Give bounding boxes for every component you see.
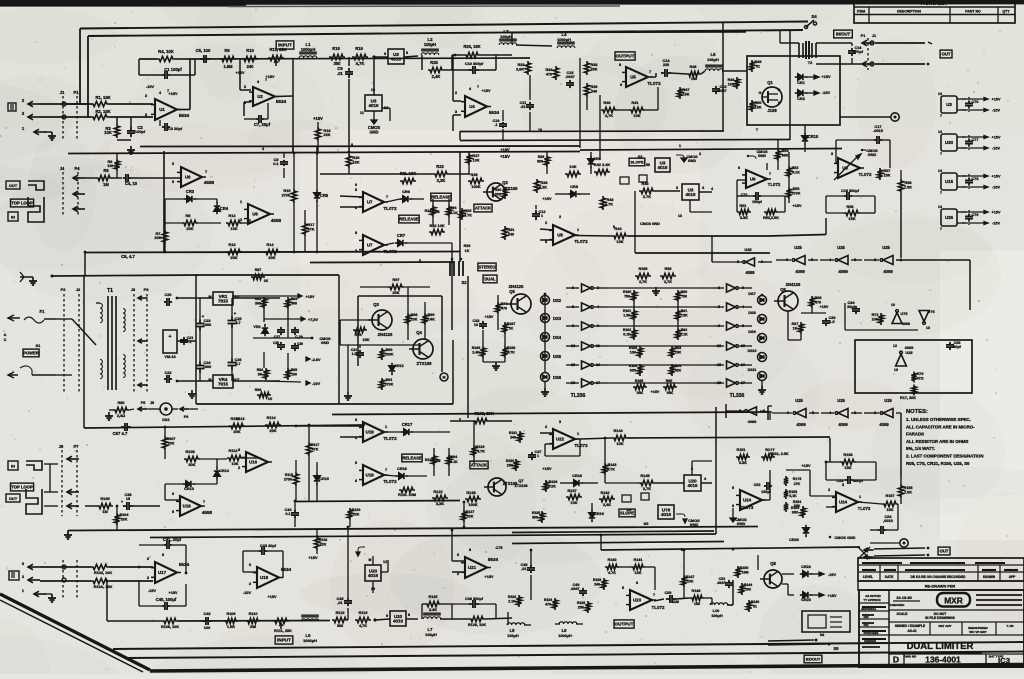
resistor R80 2.4K <box>113 407 129 412</box>
svg-text:R73: R73 <box>917 372 924 376</box>
wire chain to R71 <box>901 259 970 261</box>
svg-text:QTY: QTY <box>1002 10 1010 14</box>
resistor R15 270K <box>291 189 296 203</box>
svg-text:TL072: TL072 <box>858 506 871 511</box>
svg-text:Q6: Q6 <box>780 287 786 292</box>
svg-text:9: 9 <box>355 183 357 187</box>
wire left vertical A <box>79 29 81 105</box>
svg-text:7: 7 <box>940 114 942 118</box>
resistor R96 470 <box>495 302 500 314</box>
array cross wires <box>608 287 714 289</box>
sheet bottom edge <box>858 665 1024 668</box>
wire y456 link <box>459 418 461 421</box>
svg-text:+15V: +15V <box>306 295 315 299</box>
svg-text:.01: .01 <box>520 105 525 109</box>
capacitor C50 220 <box>666 598 670 600</box>
svg-text:100μH: 100μH <box>425 632 437 637</box>
resistor R45 2.7K <box>639 188 655 193</box>
ground R80 <box>108 412 110 416</box>
resistor R84 3K <box>263 368 268 380</box>
svg-text:U2: U2 <box>257 94 263 99</box>
resistor R85 100 <box>285 368 290 380</box>
resistor R52 2.5K <box>764 209 778 214</box>
svg-text:R67: R67 <box>792 322 799 326</box>
svg-text:7: 7 <box>940 152 942 156</box>
svg-text:8: 8 <box>408 613 410 617</box>
MXR logo <box>937 593 970 607</box>
resistor R20 22K <box>346 154 351 168</box>
slope boxes small <box>620 177 629 184</box>
svg-text:300: 300 <box>291 302 297 306</box>
wire chain1 left drop <box>711 236 713 253</box>
resistor R59 2.7K <box>660 273 676 278</box>
ground ladder <box>655 287 657 291</box>
svg-text:+15V: +15V <box>169 591 178 595</box>
svg-text:100K: 100K <box>468 502 477 507</box>
wire q3 bottom <box>339 320 341 345</box>
svg-text:100μH: 100μH <box>500 34 512 39</box>
resistor R129 4.7K <box>471 445 476 457</box>
svg-text:R130: R130 <box>506 459 514 463</box>
svg-text:20K: 20K <box>154 235 161 240</box>
svg-text:3: 3 <box>559 420 561 424</box>
label IN/OUT box <box>834 30 853 38</box>
wire chain2 bracket <box>767 406 769 420</box>
label RELEASE ch1b <box>399 215 419 223</box>
svg-text:C79: C79 <box>972 213 979 217</box>
wire L8 L9 stubs <box>507 612 509 625</box>
svg-text:CR19: CR19 <box>594 512 604 516</box>
svg-text:5: 5 <box>355 188 357 192</box>
svg-text:C10 300pf: C10 300pf <box>465 61 484 66</box>
svg-text:CR14: CR14 <box>219 469 230 473</box>
resistor R41b 10K <box>565 171 581 176</box>
inductor L1 1000uH <box>299 56 317 58</box>
capacitor C44 0.1 <box>294 510 296 513</box>
svg-text:R58: R58 <box>905 181 912 185</box>
svg-text:IN: IN <box>11 215 15 220</box>
label RELEASE ch1 <box>431 193 451 201</box>
svg-text:+15V: +15V <box>313 116 323 121</box>
svg-text:4016: 4016 <box>657 165 668 170</box>
svg-text:8: 8 <box>355 231 357 235</box>
resistor R87 1K top <box>251 274 265 279</box>
svg-text:4.7K: 4.7K <box>507 351 515 355</box>
svg-text:R14: R14 <box>266 242 274 247</box>
svg-text:C20: C20 <box>165 293 172 297</box>
svg-text:5: 5 <box>355 461 357 465</box>
wire S6 dots <box>768 640 814 641</box>
connector P2/J2 <box>63 294 65 392</box>
svg-text:R126, 10K: R126, 10K <box>468 623 486 627</box>
svg-text:R120: R120 <box>352 508 361 512</box>
svg-text:PART NO: PART NO <box>965 10 981 14</box>
svg-text:C1 100pf: C1 100pf <box>164 67 182 72</box>
label ATTACK ch1 <box>474 204 492 212</box>
resistor R127 10K <box>461 510 466 522</box>
svg-text:R12: R12 <box>228 213 236 218</box>
svg-text:U19: U19 <box>366 430 375 435</box>
svg-text:SIGNED / EXAMPLE: SIGNED / EXAMPLE <box>895 624 925 628</box>
resistor R10 240 <box>242 56 258 61</box>
svg-text:+15V: +15V <box>992 98 1001 102</box>
svg-text:+15V: +15V <box>801 463 811 468</box>
svg-text:240: 240 <box>250 625 256 629</box>
svg-text:10K: 10K <box>633 113 640 118</box>
label TOP LOOP <box>11 199 34 207</box>
svg-text:R142: R142 <box>600 491 609 495</box>
svg-text:P6: P6 <box>184 415 189 419</box>
op-amp U21 5534 <box>465 557 487 578</box>
resistor R118 300 <box>332 617 348 622</box>
resistor R17 47K <box>302 222 307 236</box>
svg-text:OUT: OUT <box>9 183 18 188</box>
svg-text:S6: S6 <box>833 646 839 651</box>
wire crossover X <box>56 318 72 320</box>
op-amp U9 TL072 var <box>838 158 860 178</box>
svg-text:R25: R25 <box>430 60 438 65</box>
jfet box <box>747 56 840 125</box>
resistor R42 2.4K <box>594 169 610 174</box>
resistor R36 6.2K <box>534 179 539 193</box>
svg-text:36K: 36K <box>792 511 799 515</box>
svg-text:R143: R143 <box>608 463 617 467</box>
svg-text:100μH: 100μH <box>507 634 519 638</box>
svg-text:OUT: OUT <box>940 548 949 553</box>
diode CR22 <box>800 573 803 575</box>
svg-text:-15V: -15V <box>312 382 320 386</box>
svg-text:,01: ,01 <box>337 601 342 605</box>
connector J3/P3 <box>133 294 135 392</box>
main title block outline <box>859 590 1024 666</box>
svg-text:2: 2 <box>545 221 547 225</box>
svg-text:CR1: CR1 <box>797 80 806 85</box>
svg-text:-2.6V: -2.6V <box>311 358 321 362</box>
diode CR6 <box>400 198 403 200</box>
svg-text:DS5: DS5 <box>553 354 562 359</box>
ic U3 4016 c <box>682 184 699 200</box>
svg-text:20K: 20K <box>392 290 399 295</box>
resistor R97 20K <box>388 284 404 289</box>
svg-text:R166: R166 <box>507 346 516 350</box>
resistor R138 25K <box>585 601 590 613</box>
capacitor C3 20pf <box>159 120 161 126</box>
resistor R19 4.7K <box>352 54 368 59</box>
svg-text:R150: R150 <box>740 566 749 570</box>
svg-text:2,6K: 2,6K <box>516 68 524 72</box>
resistor R66 470 <box>809 296 814 308</box>
svg-text:U25: U25 <box>795 398 803 403</box>
svg-text:300: 300 <box>537 160 543 164</box>
svg-text:4016: 4016 <box>368 573 379 578</box>
svg-text:6: 6 <box>636 581 638 585</box>
resistor R94 15K <box>353 327 367 332</box>
svg-text:ZTX108: ZTX108 <box>417 361 433 366</box>
svg-text:3: 3 <box>355 418 357 422</box>
svg-text:R80: R80 <box>118 401 125 405</box>
resistor R44 10K <box>612 233 628 238</box>
svg-text:R1, 10K: R1, 10K <box>95 95 110 100</box>
capacitor C33 1.5 <box>825 318 827 321</box>
svg-text:ITEM: ITEM <box>857 10 865 14</box>
resistor R1 10K <box>91 101 109 106</box>
resistor R159 2.7K <box>635 273 651 278</box>
oscillator block box <box>855 340 972 393</box>
jack J1 arrows <box>28 101 33 107</box>
svg-text:TL072: TL072 <box>574 239 588 244</box>
svg-text:9: 9 <box>384 52 386 56</box>
svg-text:R159: R159 <box>638 267 647 271</box>
svg-text:10M: 10M <box>741 571 748 575</box>
svg-text:R154: R154 <box>791 506 799 510</box>
svg-text:4016: 4016 <box>685 192 696 197</box>
svg-text:C43 20μf: C43 20μf <box>260 543 277 548</box>
svg-text:4069: 4069 <box>879 422 889 427</box>
svg-text:+15V: +15V <box>820 305 829 309</box>
svg-text:R85: R85 <box>291 368 297 372</box>
svg-text:R125: R125 <box>428 595 437 599</box>
svg-text:C52: C52 <box>754 483 761 487</box>
svg-text:FARADS: FARADS <box>906 432 924 437</box>
pot R11 25K <box>268 55 284 60</box>
svg-text:IN FILE DRAWINGS: IN FILE DRAWINGS <box>925 616 954 620</box>
resistor R7 20K vert <box>162 230 167 244</box>
regulator VR1 7815 <box>213 292 233 305</box>
svg-text:22K: 22K <box>352 160 359 165</box>
diode CR16 <box>396 475 399 477</box>
svg-text:GND: GND <box>321 341 330 345</box>
svg-text:22K: 22K <box>353 513 360 517</box>
svg-text:240: 240 <box>510 436 516 440</box>
svg-text:25K: 25K <box>495 193 502 197</box>
svg-text:4069: 4069 <box>796 422 806 427</box>
svg-text:ALL CAPACITOR ARE IN MICRO-: ALL CAPACITOR ARE IN MICRO- <box>906 424 975 429</box>
svg-text:R151: R151 <box>736 448 745 452</box>
svg-text:R36: R36 <box>541 181 548 185</box>
resistor R150 10M <box>735 566 740 578</box>
svg-text:+15V: +15V <box>169 92 178 96</box>
svg-text:R87: R87 <box>255 268 262 272</box>
svg-text:.0015: .0015 <box>873 128 884 133</box>
svg-text:5.1K: 5.1K <box>450 460 458 464</box>
svg-text:13: 13 <box>894 368 898 372</box>
svg-text:R169: R169 <box>472 346 481 350</box>
svg-text:Q7: Q7 <box>518 478 523 483</box>
svg-text:6: 6 <box>172 492 174 496</box>
svg-text:R167: R167 <box>507 322 516 326</box>
svg-text:CR22: CR22 <box>801 565 811 569</box>
wire vert x164 <box>163 151 165 252</box>
svg-text:6.2K: 6.2K <box>539 186 547 190</box>
svg-text:CR9: CR9 <box>593 157 600 161</box>
svg-text:U25: U25 <box>744 247 752 252</box>
svg-text:-15V: -15V <box>828 573 836 577</box>
svg-text:ATTACK: ATTACK <box>475 205 491 210</box>
svg-text:,01: ,01 <box>521 567 526 571</box>
svg-text:100: 100 <box>204 625 211 630</box>
capacitor C38 15 <box>123 505 127 507</box>
LED DS9 <box>758 334 767 343</box>
svg-text:P5: P5 <box>141 401 146 405</box>
svg-text:4069: 4069 <box>795 269 805 274</box>
resistor R53 5.1K <box>786 166 791 178</box>
wire u24a out <box>762 499 770 501</box>
svg-text:3,3K: 3,3K <box>437 178 446 183</box>
svg-text:U24: U24 <box>839 500 848 505</box>
ic power group U25 <box>941 209 957 226</box>
svg-text:R1?3: R1?3 <box>793 477 802 481</box>
resistor R146 150 <box>690 595 704 600</box>
svg-text:0.1: 0.1 <box>273 161 279 166</box>
capacitor C21 .1 <box>183 337 185 340</box>
wire top rail B <box>88 30 803 36</box>
cmos gnd u24 <box>829 536 832 539</box>
jack symbol 2 <box>28 197 44 222</box>
svg-text:SCALE: SCALE <box>897 612 908 616</box>
wire vert x317 ext <box>316 146 318 153</box>
svg-text:136-4001: 136-4001 <box>925 655 961 665</box>
svg-text:L8: L8 <box>510 628 516 633</box>
connector J4 arrows <box>73 175 78 181</box>
inverter U25b 4069 <box>838 256 848 265</box>
svg-text:CR17: CR17 <box>402 422 413 427</box>
diode CR9 <box>590 156 592 159</box>
svg-text:DS4: DS4 <box>553 335 562 340</box>
svg-text:R19: R19 <box>355 46 363 51</box>
arrow -2.6V <box>306 357 310 361</box>
svg-text:1: 1 <box>541 214 543 218</box>
svg-text:14: 14 <box>938 169 942 173</box>
svg-text:R18: R18 <box>332 46 340 51</box>
svg-text:1K: 1K <box>509 327 514 331</box>
resistor R91 270K <box>379 378 384 390</box>
resistor R74 <box>912 385 916 396</box>
wire U2 conn <box>239 58 241 90</box>
logo side text <box>976 594 1022 596</box>
svg-text:4.7: 4.7 <box>235 321 240 325</box>
svg-text:100K: 100K <box>471 184 480 189</box>
wire bus y131 return <box>460 130 724 133</box>
capacitor C5 100 <box>200 58 204 60</box>
hook arrow cmos <box>358 547 365 556</box>
revision table <box>858 558 1024 581</box>
svg-text:CR8: CR8 <box>570 184 579 189</box>
svg-text:U16: U16 <box>249 460 258 465</box>
svg-text:7: 7 <box>769 172 771 176</box>
svg-text:+15V: +15V <box>266 75 275 79</box>
diode CR20 <box>805 525 807 528</box>
svg-text:U25: U25 <box>794 245 802 250</box>
svg-text:13: 13 <box>678 214 682 218</box>
svg-text:RELEASE: RELEASE <box>402 455 422 460</box>
svg-text:4016: 4016 <box>661 512 672 517</box>
wire x580 vert <box>579 58 581 148</box>
wire U5 output net <box>650 76 656 78</box>
svg-text:R162: R162 <box>623 328 631 332</box>
wire U1 out <box>177 109 190 111</box>
svg-text:240: 240 <box>247 64 255 69</box>
svg-text:3: 3 <box>676 186 678 190</box>
svg-text:R98: R98 <box>411 313 418 317</box>
diode CR8 <box>568 193 571 195</box>
wire x600 vert <box>599 95 601 160</box>
svg-text:R62: R62 <box>681 328 687 332</box>
svg-text:R136: R136 <box>549 480 558 484</box>
diode CR3 <box>184 198 187 200</box>
label INPUT ch2 <box>275 636 293 644</box>
op-amp U24 main <box>836 492 858 512</box>
resistor R27 10K <box>466 153 471 165</box>
svg-text:TL072: TL072 <box>383 479 397 484</box>
svg-text:ZTX109: ZTX109 <box>514 484 527 488</box>
resistor R35 300 <box>544 155 549 167</box>
revision scribbles <box>862 562 902 564</box>
svg-text:MXR: MXR <box>944 595 963 605</box>
wire ch2 chain y621 <box>178 620 330 623</box>
transistor Q8 <box>764 570 782 588</box>
resistor R22 3.3K <box>433 171 449 176</box>
svg-text:10K: 10K <box>635 571 642 575</box>
svg-text:TL072: TL072 <box>383 436 397 441</box>
diode CR10 <box>804 133 806 136</box>
svg-text:U4: U4 <box>469 104 475 109</box>
svg-text:R38: R38 <box>591 63 598 67</box>
resistor R29 etc <box>451 243 453 262</box>
svg-text:IC3: IC3 <box>998 656 1010 665</box>
svg-text:10K: 10K <box>683 93 690 97</box>
svg-text:6: 6 <box>738 166 740 170</box>
svg-text:-15V: -15V <box>992 222 1000 226</box>
svg-text:9: 9 <box>386 614 388 618</box>
svg-text:470μf: 470μf <box>853 50 864 54</box>
svg-text:750: 750 <box>681 295 687 299</box>
wire chain2 vert link <box>769 412 771 420</box>
svg-text:POWER: POWER <box>23 350 39 355</box>
svg-text:20μf: 20μf <box>847 305 856 309</box>
svg-text:R66: R66 <box>815 296 822 300</box>
wire jfet loop riser <box>722 22 724 131</box>
transistor Q7 ZTX109 <box>488 478 506 496</box>
inverter U26c 4069 <box>796 409 806 418</box>
svg-text:47K: 47K <box>312 448 319 452</box>
svg-text:U19: U19 <box>366 473 375 478</box>
svg-text:8: 8 <box>469 548 471 552</box>
svg-text:3: 3 <box>238 448 240 452</box>
resistor R34 470 <box>553 66 558 80</box>
svg-text:U3: U3 <box>946 102 952 107</box>
svg-text:D: D <box>893 655 899 665</box>
wire bus y530 <box>68 527 758 531</box>
u9 fb box wires <box>826 195 844 197</box>
svg-text:T2: T2 <box>808 61 812 65</box>
svg-text:R102, 10K: R102, 10K <box>94 571 112 575</box>
resistor R147 10K <box>681 575 686 587</box>
svg-text:DS9: DS9 <box>748 330 755 334</box>
svg-text:470: 470 <box>546 73 552 77</box>
diode CR5 <box>316 190 318 193</box>
svg-text:4069: 4069 <box>838 269 848 274</box>
svg-text:R93: R93 <box>255 388 261 392</box>
svg-text:-15V: -15V <box>822 90 831 95</box>
wire q3 box top <box>358 295 442 297</box>
svg-text:8: 8 <box>162 553 164 557</box>
svg-text:R30: R30 <box>495 188 502 192</box>
svg-text:15K: 15K <box>887 508 894 512</box>
transistor Q2 ZTX109 <box>487 183 505 201</box>
svg-text:.0047: .0047 <box>565 75 575 79</box>
supply box <box>196 274 339 276</box>
resistor R105 1M <box>97 503 113 508</box>
